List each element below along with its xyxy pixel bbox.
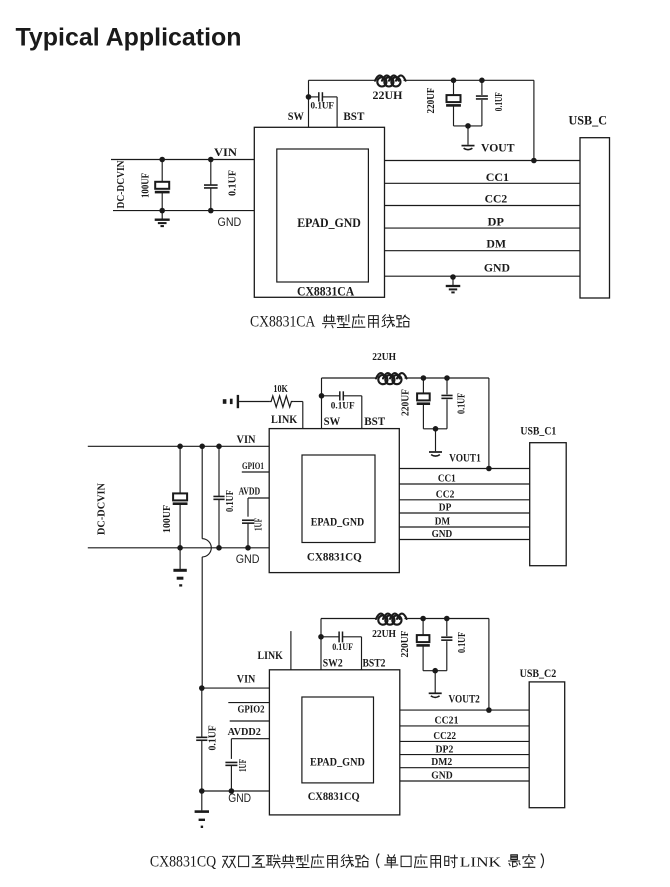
- ground VOUT caps (circuit 1): [462, 146, 475, 150]
- label GND pin (U1): [218, 215, 242, 229]
- svg-text:VIN: VIN: [214, 145, 237, 159]
- svg-text:EPAD_GND: EPAD_GND: [310, 755, 365, 769]
- svg-text:CC21: CC21: [435, 714, 459, 726]
- wire DP (circuit 2): [399, 512, 529, 514]
- label 0.1UF (C9): [331, 402, 355, 412]
- label CC22 net (circuit 3): [433, 730, 456, 742]
- svg-text:SW2: SW2: [323, 656, 343, 670]
- svg-text:22UH: 22UH: [372, 628, 396, 640]
- capacitor C16 0.1UF (circuit 3): [441, 619, 452, 671]
- ground on GND line (circuit 1): [446, 277, 461, 292]
- svg-text:SW: SW: [288, 109, 304, 123]
- label GND net (circuit 2): [432, 528, 453, 540]
- capacitor C4 220UF (circuit 1): [446, 80, 461, 126]
- label 22UH (L3): [372, 628, 396, 640]
- svg-text:BST2: BST2: [363, 656, 386, 670]
- label SW pin (U2): [324, 414, 341, 428]
- svg-text:GND: GND: [218, 215, 242, 229]
- wire GND line (circuit 3): [400, 780, 529, 782]
- svg-text:GPIO1: GPIO1: [242, 462, 264, 472]
- label CC2 net (circuit 2): [436, 489, 455, 501]
- junction GND-C1 (circuit 1): [159, 208, 165, 214]
- label VOUT2 net (circuit 3): [449, 692, 480, 706]
- junction SW node (circuit 1): [306, 94, 312, 100]
- wire C15-C16 bottom join (circuit 3): [423, 670, 447, 672]
- ground below rail (circuit 3): [195, 791, 209, 827]
- junction VIN-C1 (circuit 1): [159, 157, 165, 163]
- label GND net (circuit 1): [484, 261, 510, 275]
- ground VOUT2 caps (circuit 3): [429, 693, 442, 697]
- label GPIO2 pin (U3): [238, 705, 265, 716]
- wire SW2 to inductor (circuit 3): [321, 618, 376, 620]
- svg-text:GND: GND: [432, 528, 453, 540]
- wire to ground (circuit 2): [435, 429, 437, 451]
- label EPAD_GND (U1): [297, 216, 361, 230]
- svg-text:SW: SW: [324, 414, 341, 428]
- wire inductor to VOUT2 node (circuit 3): [405, 618, 489, 620]
- junction GND rail (circuit 3): [199, 788, 205, 794]
- junction GND-C13 (circuit 3): [229, 788, 235, 794]
- capacitor C3 0.1UF bootstrap (circuit 1): [309, 92, 338, 127]
- wire VOUT2 line (circuit 3): [400, 709, 529, 711]
- capacitor C12 0.1UF rail (circuit 3): [196, 688, 207, 791]
- svg-text:LINK: LINK: [460, 856, 501, 871]
- label 220UF (C10): [401, 389, 412, 416]
- wire VIN input (circuit 1): [111, 159, 254, 161]
- label DP net (circuit 1): [488, 214, 505, 228]
- label VIN pin (U2): [237, 432, 256, 446]
- op-amp U3 epad box (circuit 3): [302, 697, 374, 783]
- svg-text:DM: DM: [486, 237, 506, 251]
- label 0.1UF (C12): [207, 725, 218, 750]
- ground below C1 (circuit 1): [155, 211, 170, 227]
- wire VIN input (circuit 2): [88, 445, 269, 447]
- svg-text:CX8831CA: CX8831CA: [297, 285, 354, 299]
- label 0.1UF (C7): [225, 490, 236, 512]
- capacitor C15 220UF (circuit 3): [416, 619, 429, 671]
- junction L2-C11 (circuit 2): [444, 375, 450, 381]
- svg-text:USB_C2: USB_C2: [520, 666, 557, 680]
- label DM net (circuit 1): [486, 237, 506, 251]
- label 0.1UF (C3): [311, 102, 335, 112]
- junction VIN rail (circuit 3): [199, 685, 205, 691]
- svg-text:EPAD_GND: EPAD_GND: [297, 216, 361, 230]
- label VOUT net (circuit 1): [481, 141, 515, 155]
- label EPAD_GND (U3): [310, 755, 365, 769]
- svg-text:AVDD2: AVDD2: [228, 727, 261, 738]
- wire SW riser (circuit 1): [308, 80, 310, 127]
- wire to ground (circuit 3): [434, 671, 436, 693]
- label DM net (circuit 2): [435, 516, 451, 528]
- wire AVDD pin (circuit 2): [248, 498, 269, 517]
- svg-text:LINK: LINK: [271, 412, 298, 426]
- label 22UH (L2): [372, 351, 396, 363]
- connector J2 USB_C1: [530, 443, 567, 566]
- svg-text:GPIO2: GPIO2: [238, 705, 265, 716]
- caption circuit 3 chinese c: [509, 854, 544, 869]
- op-amp U2 CX8831CQ outer body (circuit 2): [269, 429, 399, 573]
- label 220UF (C4): [426, 88, 437, 114]
- wire C4-C5 bottom join (circuit 1): [454, 125, 482, 127]
- svg-text:CX8831CQ: CX8831CQ: [150, 854, 216, 871]
- svg-text:100UF: 100UF: [162, 505, 173, 533]
- label 220UF (C15): [400, 631, 411, 658]
- caption circuit 3 LINK: [460, 856, 501, 871]
- svg-text:CC2: CC2: [485, 192, 508, 206]
- caption circuit 3 chinese b: [385, 855, 458, 868]
- svg-text:DM: DM: [435, 516, 451, 528]
- wire CC2 (circuit 2): [399, 499, 529, 501]
- wire to resistor (circuit 2): [239, 401, 269, 403]
- svg-text:GND: GND: [484, 261, 510, 275]
- wire SW2 riser (circuit 3): [320, 619, 322, 637]
- svg-text:CC1: CC1: [438, 472, 456, 484]
- junction GND-C7 (circuit 2): [216, 545, 222, 551]
- wire VOUT1 line (circuit 2): [399, 468, 529, 470]
- capacitor C5 0.1UF (circuit 1): [476, 80, 488, 126]
- ground below C6 (circuit 2): [173, 548, 186, 586]
- caption circuit 3 latin: [150, 854, 216, 871]
- label 1UF (C8): [254, 518, 265, 531]
- op-amp U1 CX8831CA outer body: [254, 127, 384, 297]
- label CX8831CA (U1): [297, 285, 354, 299]
- wire GND line (circuit 2): [399, 539, 529, 541]
- junction GND-C6 (circuit 2): [177, 545, 183, 551]
- wire VOUT1 drop (circuit 2): [488, 378, 490, 469]
- label USB_C2 (J3): [520, 666, 557, 680]
- wire DP (circuit 1): [385, 227, 581, 229]
- svg-text:AVDD: AVDD: [239, 487, 261, 498]
- wire CC2 (circuit 1): [385, 205, 581, 207]
- label DP2 net (circuit 3): [436, 743, 454, 755]
- junction SW node (circuit 2): [319, 393, 325, 399]
- svg-text:10K: 10K: [273, 384, 288, 395]
- inductor L1 22UH (circuit 1): [375, 75, 406, 86]
- svg-text:CX8831CQ: CX8831CQ: [308, 789, 360, 803]
- label BST2 pin (U3): [363, 656, 386, 670]
- wire inductor to VOUT1 node (circuit 2): [405, 377, 489, 379]
- label LINK pin (U2): [271, 412, 298, 426]
- caption circuit 3 chinese a: [223, 854, 380, 869]
- wire SW to inductor (circuit 1): [309, 79, 376, 81]
- svg-text:Typical Application: Typical Application: [16, 24, 242, 52]
- junction L1-C4 (circuit 1): [451, 78, 457, 84]
- svg-text:220UF: 220UF: [426, 88, 437, 114]
- wire GND input (circuit 1): [113, 210, 254, 212]
- wire CC1 (circuit 1): [385, 182, 581, 184]
- label 22UH (L1): [373, 90, 403, 102]
- wire CC22 (circuit 3): [400, 740, 529, 742]
- label GPIO1 pin (U2): [242, 462, 264, 472]
- svg-text:0.1UF: 0.1UF: [457, 632, 468, 653]
- label 100UF (C6): [162, 505, 173, 533]
- op-amp U2 epad box (circuit 2): [302, 455, 375, 543]
- resistor R1 10K (circuit 2): [269, 396, 293, 407]
- svg-text:0.1UF: 0.1UF: [331, 402, 355, 412]
- wire DM (circuit 1): [385, 250, 581, 252]
- svg-text:GND: GND: [431, 770, 452, 782]
- ground VOUT1 caps (circuit 2): [429, 452, 442, 456]
- wire stub pin (circuit 3): [228, 702, 269, 704]
- connector J1 USB_C: [580, 138, 610, 298]
- svg-text:DC-DCVIN: DC-DCVIN: [116, 160, 127, 208]
- svg-text:DP2: DP2: [436, 743, 454, 755]
- label GND pin (U3): [228, 791, 251, 805]
- junction output cap ground (circuit 1): [465, 123, 471, 129]
- wire GND input (circuit 2): [88, 547, 269, 549]
- label USB_C (J1): [569, 114, 608, 128]
- junction L1-C5 (circuit 1): [479, 78, 485, 84]
- svg-text:VIN: VIN: [237, 672, 256, 686]
- capacitor C7 0.1UF (circuit 2): [213, 446, 224, 548]
- label GND net (circuit 3): [431, 770, 452, 782]
- wire C10-C11 bottom join (circuit 2): [423, 428, 447, 430]
- wire VIN rail down with hop (circuit 2): [202, 446, 211, 688]
- wire VIN rail (circuit 3): [202, 687, 270, 689]
- svg-text:LINK: LINK: [258, 648, 284, 662]
- wire to ground (circuit 1): [467, 126, 469, 145]
- wire resistor to LINK pin (circuit 2): [293, 402, 302, 429]
- svg-text:0.1UF: 0.1UF: [225, 490, 236, 512]
- junction L3-C16 (circuit 3): [444, 616, 450, 622]
- inductor L2 22UH (circuit 2): [376, 373, 407, 384]
- label DM2 net (circuit 3): [431, 756, 452, 768]
- label VOUT1 net (circuit 2): [449, 451, 481, 465]
- junction GND-C8 (circuit 2): [245, 545, 251, 551]
- capacitor C10 220UF (circuit 2): [417, 378, 430, 429]
- node test point (circuit 2): [223, 395, 239, 408]
- wire GPIO2 (circuit 3): [230, 720, 270, 722]
- capacitor C14 0.1UF bootstrap (circuit 3): [321, 632, 362, 670]
- junction L2-C10 (circuit 2): [421, 375, 427, 381]
- wire VOUT2 drop (circuit 3): [488, 619, 490, 711]
- label USB_C1 (J2): [520, 424, 556, 438]
- capacitor C11 0.1UF (circuit 2): [441, 378, 452, 429]
- svg-text:0.1UF: 0.1UF: [494, 92, 505, 111]
- label DP net (circuit 2): [439, 502, 452, 514]
- label BST pin (U1): [343, 109, 364, 123]
- svg-text:1UF: 1UF: [254, 518, 265, 531]
- label 0.1UF (C11): [457, 393, 468, 414]
- capacitor C13 1UF (circuit 3): [225, 762, 237, 791]
- title Typical Application: [16, 24, 242, 52]
- svg-text:0.1UF: 0.1UF: [311, 102, 335, 112]
- label 1UF (C13): [238, 759, 249, 772]
- wire GPIO1 stub (circuit 2): [242, 471, 269, 473]
- wire LINK stub (circuit 3): [290, 631, 292, 670]
- wire CC1 (circuit 2): [399, 483, 529, 485]
- junction output cap ground (circuit 3): [432, 668, 438, 674]
- junction VOUT2 line (circuit 3): [486, 707, 492, 713]
- label CX8831CQ (U2): [307, 550, 362, 564]
- label GND pin (U2): [236, 552, 260, 566]
- svg-text:CX8831CA: CX8831CA: [250, 314, 316, 331]
- svg-text:0.1UF: 0.1UF: [207, 725, 218, 750]
- svg-text:DM2: DM2: [431, 756, 452, 768]
- junction SW2 node (circuit 3): [318, 634, 324, 640]
- svg-text:DP: DP: [488, 214, 505, 228]
- svg-text:VOUT1: VOUT1: [449, 451, 481, 465]
- svg-text:CX8831CQ: CX8831CQ: [307, 550, 362, 564]
- svg-text:100UF: 100UF: [140, 173, 151, 198]
- label 10K (R1): [273, 384, 288, 395]
- wire VOUT line (circuit 1): [385, 160, 581, 162]
- label CC1 net (circuit 2): [438, 472, 456, 484]
- label LINK net (circuit 3): [258, 648, 284, 662]
- svg-text:CC2: CC2: [436, 489, 455, 501]
- svg-text:GND: GND: [236, 552, 260, 566]
- label CX8831CQ (U3): [308, 789, 360, 803]
- junction VIN rail tap (circuit 2): [199, 444, 205, 450]
- label CC21 net (circuit 3): [435, 714, 459, 726]
- label SW pin (U1): [288, 109, 304, 123]
- svg-text:CC22: CC22: [433, 730, 456, 742]
- label CC2 net (circuit 1): [485, 192, 508, 206]
- label 0.1UF (C16): [457, 632, 468, 653]
- svg-text:EPAD_GND: EPAD_GND: [311, 515, 365, 529]
- svg-text:DC-DCVIN: DC-DCVIN: [97, 483, 108, 535]
- label AVDD2 pin (U3): [228, 727, 261, 738]
- label BST pin (U2): [364, 414, 385, 428]
- svg-text:USB_C1: USB_C1: [520, 424, 556, 438]
- wire SW to inductor (circuit 2): [322, 377, 377, 379]
- svg-text:0.1UF: 0.1UF: [457, 393, 468, 414]
- op-amp U1 CX8831CA epad box: [277, 149, 369, 282]
- svg-text:VIN: VIN: [237, 432, 256, 446]
- junction VIN-C6 (circuit 2): [177, 444, 183, 450]
- op-amp U3 CX8831CQ outer body (circuit 3): [269, 670, 399, 815]
- capacitor C9 0.1UF bootstrap (circuit 2): [322, 391, 362, 428]
- label DC-DCVIN (circuit 2): [97, 483, 108, 535]
- svg-text:DP: DP: [439, 502, 452, 514]
- svg-text:22UH: 22UH: [373, 90, 403, 102]
- junction GND-ground (circuit 1): [450, 274, 456, 280]
- junction GND-C2 (circuit 1): [208, 208, 214, 214]
- label DC-DCVIN (circuit 1): [116, 160, 127, 208]
- capacitor C8 1UF (circuit 2): [242, 520, 254, 548]
- svg-text:220UF: 220UF: [400, 631, 411, 658]
- label SW2 pin (U3): [323, 656, 343, 670]
- label AVDD pin (U2): [239, 487, 261, 498]
- label 0.1UF (C2): [227, 170, 238, 196]
- svg-text:22UH: 22UH: [372, 351, 396, 363]
- junction VIN-C7 (circuit 2): [216, 444, 222, 450]
- junction VOUT line (circuit 1): [531, 158, 537, 164]
- wire inductor to VOUT node (circuit 1): [404, 79, 534, 81]
- capacitor C1 100UF (circuit 1): [155, 160, 170, 211]
- svg-text:220UF: 220UF: [401, 389, 412, 416]
- svg-text:VOUT2: VOUT2: [449, 692, 480, 706]
- label EPAD_GND (U2): [311, 515, 365, 529]
- wire VOUT drop (circuit 1): [533, 80, 535, 160]
- connector J3 USB_C2: [529, 682, 565, 808]
- wire DM2 (circuit 3): [400, 767, 529, 769]
- svg-text:VOUT: VOUT: [481, 141, 515, 155]
- wire AVDD2 (circuit 3): [231, 739, 269, 759]
- caption circuit 1 chinese: [323, 315, 410, 328]
- svg-text:BST: BST: [364, 414, 385, 428]
- svg-text:BST: BST: [343, 109, 364, 123]
- junction output cap ground (circuit 2): [433, 426, 439, 432]
- label 0.1UF (C14): [332, 643, 353, 653]
- label 100UF (C1): [140, 173, 151, 198]
- wire DP2 (circuit 3): [400, 754, 529, 756]
- wire DM (circuit 2): [399, 526, 529, 528]
- wire CC21 (circuit 3): [400, 725, 529, 727]
- label CC1 net (circuit 1): [486, 170, 509, 184]
- svg-text:CC1: CC1: [486, 170, 509, 184]
- caption circuit 1 latin: [250, 314, 316, 331]
- junction VOUT1 line (circuit 2): [486, 466, 492, 472]
- label VIN pin (U3): [237, 672, 256, 686]
- label VIN pin (U1): [214, 145, 237, 159]
- wire SW riser (circuit 2): [321, 378, 323, 429]
- svg-text:1UF: 1UF: [238, 759, 249, 772]
- wire GND line (circuit 1): [385, 275, 581, 277]
- junction VIN-C2 (circuit 1): [208, 157, 214, 163]
- label 0.1UF (C5): [494, 92, 505, 111]
- svg-text:0.1UF: 0.1UF: [227, 170, 238, 196]
- capacitor C2 0.1UF (circuit 1): [204, 160, 218, 211]
- wire GND rail (circuit 3): [202, 790, 270, 792]
- svg-text:0.1UF: 0.1UF: [332, 643, 353, 653]
- svg-text:USB_C: USB_C: [569, 114, 608, 128]
- capacitor C6 100UF (circuit 2): [173, 446, 188, 548]
- inductor L3 22UH (circuit 3): [376, 614, 407, 625]
- junction L3-C15 (circuit 3): [420, 616, 426, 622]
